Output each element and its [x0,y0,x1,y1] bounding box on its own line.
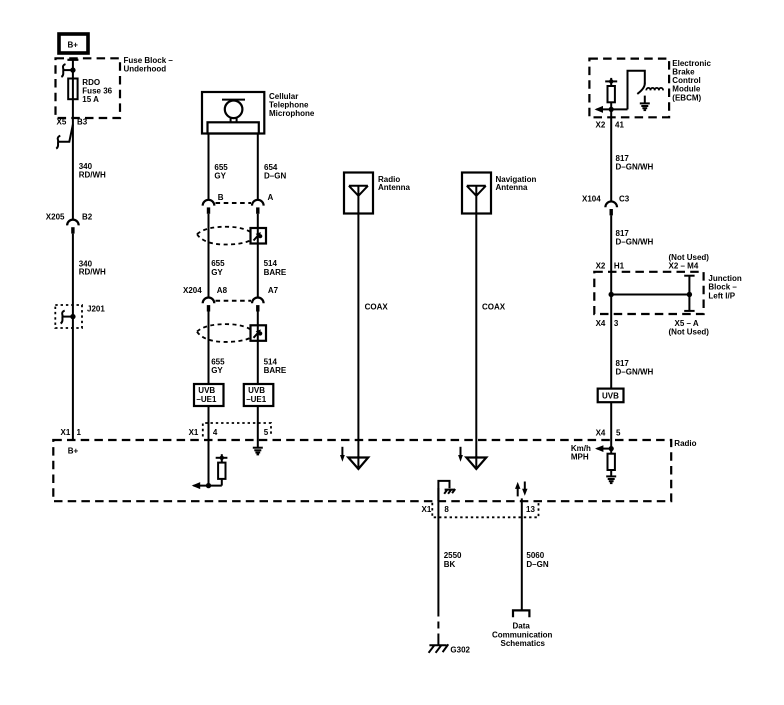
svg-text:Schematics: Schematics [501,639,546,648]
shield twisted-pair ellipse 1 [197,227,253,245]
svg-text:4: 4 [213,428,218,437]
svg-text:X204: X204 [183,286,202,295]
node radio internal ground leg [438,481,449,501]
svg-text:817: 817 [616,359,630,368]
svg-text:B+: B+ [68,447,79,456]
component radio antenna box [344,173,373,214]
svg-text:BARE: BARE [264,366,287,375]
microphone base rect [208,122,259,133]
connector pin A [252,200,264,206]
module EBCM dashed box [589,59,669,118]
microphone stem [230,118,232,123]
svg-text:Microphone: Microphone [269,109,315,118]
off-page bracket to data schematics [513,610,529,617]
svg-text:G302: G302 [450,646,470,655]
microphone head circle [225,101,243,119]
svg-text:X2 – M4: X2 – M4 [669,262,699,271]
wire 817 D-GN/WH middle [610,215,612,294]
wire 340 RD/WH middle [72,234,74,440]
EBCM switch branch [628,71,645,110]
svg-text:Block –: Block – [708,282,737,291]
shield drain box 1 [251,228,267,244]
svg-text:1: 1 [77,428,82,437]
wire through shield box 2 [257,325,259,341]
wire 655 GY below B [208,214,210,298]
svg-text:655: 655 [214,163,228,172]
shield drain box 2 [251,325,267,341]
spare terminal bar [688,276,690,311]
node Km/h MPH arrow [597,448,611,450]
wire 514 below A [257,214,259,298]
svg-text:X205: X205 [46,213,65,222]
svg-text:D–GN/WH: D–GN/WH [616,368,654,377]
signal arrow navigation [460,447,462,456]
wire splice stub [62,316,73,318]
ground radio speed input [606,476,616,483]
svg-text:654: 654 [264,163,278,172]
svg-text:Antenna: Antenna [496,183,529,192]
microphone bar [222,99,245,101]
wire coax navigation [475,214,477,468]
ground G302 chassis [437,640,439,645]
junction at Km/h node [609,446,614,451]
svg-text:X4: X4 [596,319,606,328]
node B+ feed T-bar [67,59,78,61]
coax termination arrow radio [348,458,368,470]
EBCM driver zigzag [646,88,663,91]
dashed connector tie B-A [216,202,252,204]
svg-text:UVB: UVB [602,391,619,400]
svg-text:COAX: COAX [482,303,506,312]
inline option box UVB-UE1 left [194,384,224,406]
connector X1 pins 4/5 dotted box [203,423,271,437]
svg-text:15 A: 15 A [82,95,99,104]
EBCM switch blade [637,83,645,94]
connector lead at X5/B3 [58,125,73,142]
svg-text:BARE: BARE [264,268,287,277]
data link arrows up/down [517,488,519,497]
wire 514 BARE below A7 [257,312,259,448]
svg-text:UVB: UVB [248,386,265,395]
svg-text:D–GN: D–GN [526,560,548,569]
node mic input: junction and pull-up [194,485,222,487]
connector X205 B2 [67,220,79,226]
connector X104 C3 [605,201,617,207]
svg-text:X1: X1 [189,428,199,437]
svg-text:GY: GY [214,172,226,181]
svg-text:B: B [218,193,224,202]
svg-text:Communication: Communication [492,630,553,639]
signal arrow radio [341,447,343,456]
dashed connector tie A8-A7 [216,300,252,302]
EBCM internal node wire [597,108,628,110]
svg-text:(Not Used): (Not Used) [669,327,710,336]
power symbol B+ box [59,34,88,53]
wire dashed to G302 [437,610,439,641]
svg-text:514: 514 [264,357,278,366]
svg-text:H1: H1 [614,262,625,271]
wire B+ feed to fuse [72,60,74,220]
component cellular telephone microphone box [202,92,264,134]
mic pull-up supply T-bar [216,457,228,459]
wire coax radio [357,214,359,468]
svg-text:5: 5 [264,428,269,437]
svg-text:13: 13 [526,505,535,514]
wire hook stub [63,69,73,71]
svg-text:3: 3 [614,319,619,328]
wire EBCM output [610,109,612,201]
svg-text:Underhood: Underhood [124,64,167,73]
fuse RDO Fuse 36 15A [68,79,77,100]
svg-text:C3: C3 [619,195,630,204]
svg-text:5060: 5060 [526,551,544,560]
connector pin B [203,200,215,206]
svg-text:MPH: MPH [571,453,589,462]
svg-text:X1: X1 [422,505,432,514]
svg-text:–UE1: –UE1 [246,395,267,404]
navigation antenna symbol [467,186,486,214]
wire 655 GY from mic [208,134,210,200]
svg-text:GY: GY [211,268,223,277]
chassis ground radio internal [444,489,455,494]
junction J201 [70,314,75,319]
svg-text:X1: X1 [61,428,71,437]
svg-text:Data: Data [513,622,531,631]
wire 655 GY below A8 [208,312,210,486]
inline option box UVB-UE1 right [244,384,273,406]
svg-text:514: 514 [264,259,278,268]
junction block left I/P dashed box [594,272,703,314]
junction at H1 leg [609,292,614,297]
svg-text:X104: X104 [582,195,601,204]
svg-text:655: 655 [211,259,225,268]
svg-text:B3: B3 [77,118,88,127]
wire 5060 D-GN [521,498,523,610]
connector pin A8 [203,298,215,304]
junction at spare leg [687,292,692,297]
svg-text:B+: B+ [68,40,79,49]
svg-text:J201: J201 [87,304,105,313]
svg-text:GY: GY [211,366,223,375]
svg-text:–UE1: –UE1 [196,395,217,404]
coax termination arrow navigation [466,458,486,470]
svg-text:X2: X2 [596,262,606,271]
splice J201 box [55,305,82,328]
junction at fuse feed [70,67,75,72]
signal arrow mic input [192,482,201,489]
EBCM internal resistor [610,81,612,86]
svg-text:Left I/P: Left I/P [708,291,735,300]
svg-text:Antenna: Antenna [378,183,411,192]
splice J201 hook [61,311,65,324]
junction EBCM node [609,107,614,112]
radio antenna symbol [349,186,368,214]
wire 817 D-GN/WH lower [610,295,612,449]
svg-text:(EBCM): (EBCM) [672,93,701,102]
wire 2550 BK [437,488,439,610]
EBCM internal supply T-bar [605,80,617,82]
svg-text:41: 41 [615,121,624,130]
svg-text:5: 5 [616,428,621,437]
signal arrow EBCM [595,106,604,113]
svg-text:D–GN/WH: D–GN/WH [616,162,654,171]
svg-text:RD/WH: RD/WH [79,268,106,277]
svg-text:X2: X2 [596,121,606,130]
wire junction block bus [611,294,689,296]
svg-text:8: 8 [444,505,449,514]
svg-text:A7: A7 [268,286,279,295]
connector hook at fuse feed [61,64,65,77]
svg-text:A8: A8 [217,286,228,295]
svg-text:X5: X5 [57,118,67,127]
svg-text:UVB: UVB [198,386,215,395]
svg-text:D–GN: D–GN [264,172,286,181]
component navigation antenna box [462,173,491,214]
svg-text:655: 655 [211,357,225,366]
svg-text:COAX: COAX [365,303,389,312]
svg-text:B2: B2 [82,213,93,222]
resistor radio speed input [610,449,612,454]
svg-text:RD/WH: RD/WH [79,171,106,180]
ground for 514 BARE (pin 5) [253,448,263,455]
junction mic input [206,483,211,488]
connector pin A7 [252,298,264,304]
wire 654 D-GN from mic [257,134,259,200]
inline option box UVB [598,389,624,403]
connector hook below X5/B3 [56,136,60,149]
svg-text:A: A [268,193,274,202]
fuse block - underhood dashed box [56,58,121,118]
wire through shield box 1 [257,228,259,244]
shield twisted-pair ellipse 2 [197,324,253,342]
svg-text:X4: X4 [596,428,606,437]
svg-text:D–GN/WH: D–GN/WH [616,237,654,246]
svg-text:2550: 2550 [444,551,462,560]
svg-text:BK: BK [444,560,456,569]
EBCM internal ground [644,96,646,104]
connector X1 pins 8/13 dotted box [432,503,538,518]
resistor mic pull-up [221,479,223,486]
svg-text:Radio: Radio [674,439,696,448]
